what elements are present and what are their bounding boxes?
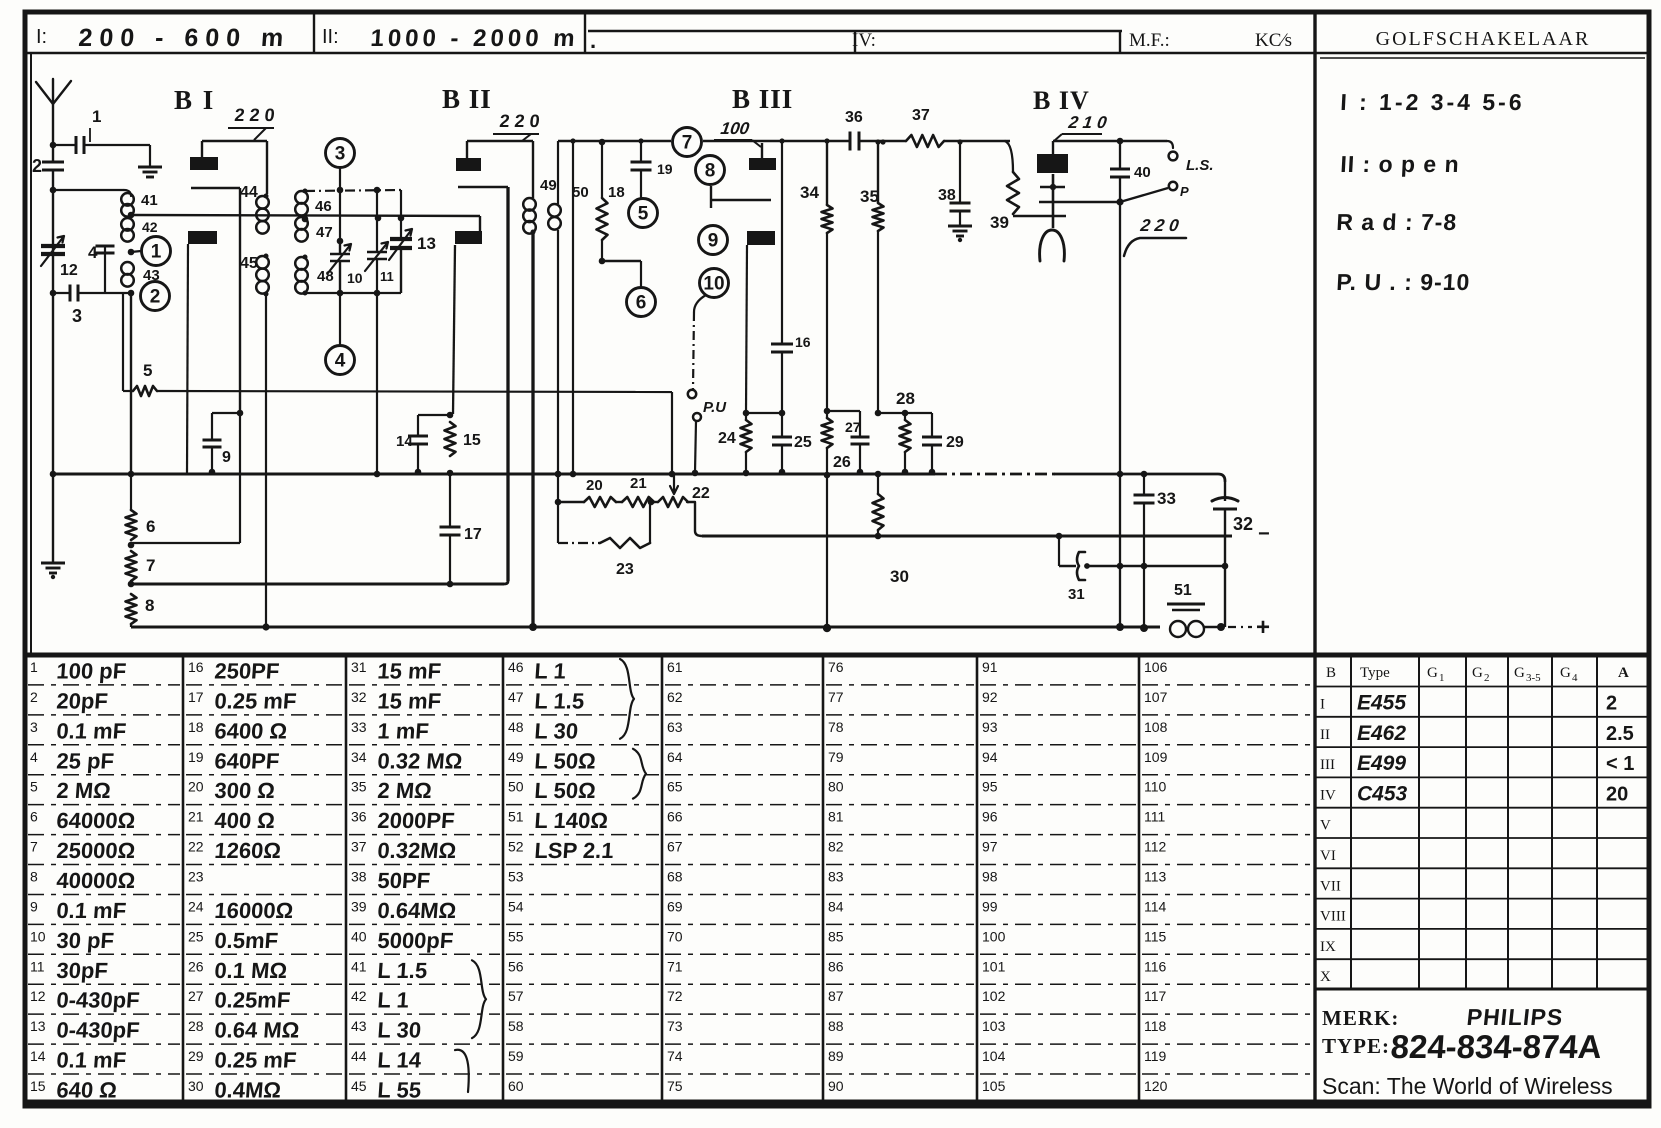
svg-text:M.F.:: M.F.: <box>1129 30 1170 51</box>
svg-text:2 1 0: 2 1 0 <box>1066 113 1108 132</box>
node bus/R6 <box>128 471 135 478</box>
svg-text:57: 57 <box>508 988 524 1004</box>
svg-text:8: 8 <box>145 596 154 615</box>
BIV cathode fork <box>1040 230 1065 261</box>
svg-text:A: A <box>1618 665 1629 681</box>
svg-text:P.U: P.U <box>703 399 727 416</box>
svg-text:20pF: 20pF <box>56 688 109 713</box>
wire 573 down <box>572 141 574 474</box>
svg-text:2000PF: 2000PF <box>377 808 456 833</box>
svg-text:18: 18 <box>608 184 625 201</box>
svg-text:50: 50 <box>508 779 524 795</box>
svg-text:34: 34 <box>351 749 367 765</box>
svg-text:20: 20 <box>1606 783 1628 805</box>
svg-text:15 mF: 15 mF <box>377 688 442 713</box>
svg-text:B II: B II <box>442 84 492 114</box>
resistor R20 <box>558 501 584 503</box>
svg-text:110: 110 <box>1144 779 1167 795</box>
svg-text:L 30: L 30 <box>377 1018 422 1043</box>
wire BII anode supply <box>466 141 468 158</box>
resistor R26 <box>824 408 831 415</box>
svg-text:250PF: 250PF <box>214 659 281 684</box>
svg-text:6: 6 <box>30 809 38 825</box>
svg-text:35: 35 <box>351 779 367 795</box>
svg-text:15 mF: 15 mF <box>377 659 442 684</box>
svg-text:47: 47 <box>508 689 524 705</box>
svg-text:II : o p e n: II : o p e n <box>1340 151 1461 177</box>
svg-text:IX: IX <box>1320 939 1336 955</box>
padder C13 <box>400 190 402 237</box>
svg-text:II:: II: <box>322 26 339 48</box>
BIV target plate <box>1039 201 1120 204</box>
svg-text:75: 75 <box>667 1078 683 1094</box>
svg-text:25 pF: 25 pF <box>56 748 115 773</box>
svg-text:97: 97 <box>982 839 998 855</box>
svg-text:Type: Type <box>1360 665 1390 681</box>
svg-text:36: 36 <box>351 809 367 825</box>
svg-text:I : 1-2 3-4 5-6: I : 1-2 3-4 5-6 <box>1340 89 1526 115</box>
svg-text:45: 45 <box>240 255 258 272</box>
svg-text:11: 11 <box>30 958 45 974</box>
svg-text:74: 74 <box>667 1048 683 1064</box>
svg-text:52: 52 <box>508 839 524 855</box>
svg-text:2 MΩ: 2 MΩ <box>56 778 112 803</box>
wire plus terminal <box>1204 626 1221 628</box>
svg-text:1000 - 2000 m: 1000 - 2000 m <box>370 25 580 52</box>
wire BIII grid down <box>746 245 747 413</box>
resistor R6 <box>130 474 132 510</box>
svg-text:51: 51 <box>508 809 524 825</box>
svg-text:64000Ω: 64000Ω <box>56 808 137 833</box>
svg-text:38: 38 <box>351 869 367 885</box>
svg-text:106: 106 <box>1144 659 1168 675</box>
svg-text:5: 5 <box>638 204 649 225</box>
svg-text:73: 73 <box>667 1018 683 1034</box>
coil L49 <box>523 198 536 211</box>
antenna <box>36 79 71 104</box>
BIV deflection electrode <box>1050 184 1056 190</box>
svg-text:67: 67 <box>667 839 683 855</box>
svg-text:39: 39 <box>990 213 1009 232</box>
svg-text:13: 13 <box>417 234 436 253</box>
pot arrow <box>670 474 678 494</box>
svg-text:23: 23 <box>188 869 204 885</box>
svg-text:115: 115 <box>1144 928 1167 944</box>
svg-text:84: 84 <box>828 898 844 914</box>
svg-text:47: 47 <box>316 224 333 241</box>
coil L50 <box>548 204 561 217</box>
svg-text:3-5: 3-5 <box>1526 672 1541 684</box>
svg-text:43: 43 <box>351 1018 367 1034</box>
svg-text:0.32 MΩ: 0.32 MΩ <box>377 748 464 773</box>
svg-text:IV:: IV: <box>852 30 876 51</box>
svg-text:P. U . : 9-10: P. U . : 9-10 <box>1336 269 1471 295</box>
wire grid bus BI-BII <box>131 215 480 216</box>
svg-text:16: 16 <box>188 659 204 675</box>
svg-text:109: 109 <box>1144 749 1168 765</box>
svg-text:100: 100 <box>719 119 751 138</box>
svg-text:37: 37 <box>912 107 930 124</box>
wire AVC line <box>157 391 672 392</box>
svg-text:65: 65 <box>667 779 683 795</box>
switch contact 6 <box>640 261 642 287</box>
coil L51 <box>1167 603 1205 606</box>
svg-text:1 mF: 1 mF <box>377 718 430 743</box>
svg-text:85: 85 <box>828 928 844 944</box>
svg-text:25: 25 <box>794 434 812 451</box>
svg-text:28: 28 <box>896 389 915 408</box>
svg-text:L 14: L 14 <box>377 1048 423 1073</box>
svg-text:29: 29 <box>946 434 964 451</box>
svg-text:KC⁄s: KC⁄s <box>1255 30 1292 51</box>
node R6/R7 <box>128 542 135 549</box>
capacitor C1 <box>53 144 76 146</box>
svg-text:114: 114 <box>1144 898 1167 914</box>
svg-text:26: 26 <box>188 958 204 974</box>
svg-text:2 2 0: 2 2 0 <box>499 111 541 131</box>
node R7/R8 <box>128 581 135 588</box>
svg-text:< 1: < 1 <box>1606 753 1634 775</box>
switch contact 5 <box>629 199 658 228</box>
svg-text:0.1 mF: 0.1 mF <box>56 898 127 923</box>
node 42/43 tap <box>128 249 135 256</box>
svg-text:0.64 MΩ: 0.64 MΩ <box>214 1018 301 1043</box>
svg-text:77: 77 <box>828 689 844 705</box>
svg-text:I: I <box>1320 697 1325 713</box>
svg-text:3: 3 <box>72 306 82 326</box>
svg-text:49: 49 <box>540 177 557 194</box>
terminal PU2 <box>693 413 701 421</box>
svg-text:10: 10 <box>30 928 46 944</box>
svg-text:0.25 mF: 0.25 mF <box>214 688 298 713</box>
svg-text:61: 61 <box>667 659 683 675</box>
svg-text:101: 101 <box>982 958 1006 974</box>
ground (C38) <box>948 225 972 228</box>
svg-text:400 Ω: 400 Ω <box>214 808 276 833</box>
svg-text:19: 19 <box>188 749 204 765</box>
wire BI grid down <box>187 244 188 474</box>
resistor R5 <box>133 386 157 396</box>
svg-text:2: 2 <box>30 689 38 705</box>
wire to PU <box>693 312 694 389</box>
wire antenna lower <box>52 170 54 474</box>
merk box <box>1315 988 1649 991</box>
svg-text:80: 80 <box>828 779 844 795</box>
svg-text:B III: B III <box>732 84 793 114</box>
capacitor C4 <box>104 246 106 293</box>
wire LS return <box>1120 188 1168 202</box>
svg-text:32: 32 <box>1233 514 1253 534</box>
svg-text:3: 3 <box>335 144 346 165</box>
capacitor C9 <box>212 412 240 414</box>
svg-text:G: G <box>1427 665 1438 681</box>
svg-text:0.25mF: 0.25mF <box>214 988 292 1013</box>
svg-text:36: 36 <box>845 109 863 126</box>
svg-text:34: 34 <box>800 183 819 202</box>
svg-text:2 2 0: 2 2 0 <box>1138 216 1180 235</box>
svg-text:L 1: L 1 <box>377 988 410 1013</box>
node grid/R15 <box>447 412 454 419</box>
switch contact 3 <box>326 139 355 168</box>
resistor R7 <box>126 551 137 581</box>
svg-text:L 30: L 30 <box>534 718 579 743</box>
svg-text:III: III <box>1320 757 1335 773</box>
wire BI cathode <box>191 187 240 189</box>
tube BI anode <box>190 157 218 170</box>
wire L50 to bus <box>557 230 559 474</box>
svg-text:19: 19 <box>657 161 673 177</box>
resistor R24 <box>743 410 750 417</box>
svg-text:P: P <box>1180 184 1189 199</box>
wire BII grid down <box>453 245 455 414</box>
svg-text:E499: E499 <box>1357 752 1406 775</box>
svg-text:49: 49 <box>508 749 524 765</box>
svg-text:79: 79 <box>828 749 844 765</box>
svg-text:50PF: 50PF <box>377 868 431 893</box>
svg-text:31: 31 <box>351 659 367 675</box>
svg-text:22: 22 <box>692 485 710 502</box>
svg-text:V: V <box>1320 818 1331 834</box>
svg-text:200 - 600 m: 200 - 600 m <box>78 24 292 52</box>
capacitor C29 <box>905 412 932 414</box>
svg-text:L 55: L 55 <box>377 1078 422 1103</box>
svg-text:90: 90 <box>828 1078 844 1094</box>
wire BI anode supply <box>201 141 203 157</box>
svg-text:116: 116 <box>1144 958 1167 974</box>
svg-text:22: 22 <box>188 839 204 855</box>
wire cathode to R6/R7 <box>239 413 241 543</box>
svg-text:37: 37 <box>351 839 367 855</box>
svg-text:68: 68 <box>667 869 683 885</box>
node R18/6 <box>599 258 606 265</box>
svg-text:72: 72 <box>667 988 683 1004</box>
svg-text:105: 105 <box>982 1078 1006 1094</box>
svg-text:0.1 MΩ: 0.1 MΩ <box>214 958 288 983</box>
svg-text:2: 2 <box>150 287 161 308</box>
golfschakelaar switch table <box>1320 57 1645 59</box>
node tap 41/42 <box>128 212 135 219</box>
svg-text:86: 86 <box>828 958 844 974</box>
svg-text:GOLFSCHAKELAAR: GOLFSCHAKELAAR <box>1376 28 1591 50</box>
svg-text:VII: VII <box>1320 878 1341 894</box>
svg-text:7: 7 <box>682 133 693 154</box>
svg-text:96: 96 <box>982 809 998 825</box>
svg-text:63: 63 <box>667 719 683 735</box>
node antenna busA <box>50 471 57 478</box>
svg-text:0.1 mF: 0.1 mF <box>56 1048 127 1073</box>
svg-text:0.1 mF: 0.1 mF <box>56 718 127 743</box>
capacitor C19 <box>638 138 643 143</box>
node L43 bottom <box>128 290 135 297</box>
svg-text:24: 24 <box>188 898 204 914</box>
resistor R34 <box>826 141 828 205</box>
svg-text:23: 23 <box>616 561 634 578</box>
svg-text:0.64MΩ: 0.64MΩ <box>377 898 457 923</box>
svg-text:82: 82 <box>828 839 844 855</box>
svg-text:27: 27 <box>188 988 204 1004</box>
tube BII anode <box>456 158 481 171</box>
svg-text:Scan: The World of Wireless: Scan: The World of Wireless <box>1322 1073 1613 1099</box>
svg-text:.: . <box>590 28 596 53</box>
svg-text:21: 21 <box>630 475 647 492</box>
svg-text:R a d : 7-8: R a d : 7-8 <box>1336 209 1458 235</box>
svg-text:60: 60 <box>508 1078 524 1094</box>
svg-text:78: 78 <box>828 719 844 735</box>
svg-text:30: 30 <box>188 1078 204 1094</box>
capacitor C25 <box>779 410 786 417</box>
switch contact 4 <box>339 293 341 345</box>
node R35/R28 <box>875 410 882 417</box>
svg-text:L 1: L 1 <box>534 659 567 684</box>
svg-text:87: 87 <box>828 988 844 1004</box>
capacitor C2 <box>42 161 64 164</box>
ground (antenna) <box>52 474 54 563</box>
svg-text:L.S.: L.S. <box>1186 157 1214 174</box>
svg-text:B: B <box>1326 665 1336 681</box>
wire C36-R37 <box>859 140 906 142</box>
resistor R39 <box>1005 141 1013 172</box>
svg-text:69: 69 <box>667 898 683 914</box>
svg-text:12: 12 <box>30 988 46 1004</box>
coil L46 <box>295 191 308 204</box>
wire R8 to +bus <box>130 624 132 627</box>
svg-text:L 140Ω: L 140Ω <box>534 808 609 833</box>
svg-text:5000pF: 5000pF <box>377 928 455 953</box>
resistor R18 <box>599 139 606 146</box>
svg-text:4: 4 <box>1572 672 1578 684</box>
switch contact 9 <box>699 226 728 255</box>
svg-text:1: 1 <box>151 242 162 263</box>
svg-text:15: 15 <box>463 432 481 449</box>
svg-text:1260Ω: 1260Ω <box>214 838 282 863</box>
trimmer C11 <box>376 190 378 251</box>
tube BII grid <box>455 231 482 244</box>
capacitor C17 <box>449 473 451 527</box>
svg-text:640PF: 640PF <box>214 748 281 773</box>
svg-text:7: 7 <box>146 556 155 575</box>
svg-text:−: − <box>1258 523 1270 545</box>
variable capacitor C12 <box>41 244 65 248</box>
svg-text:L 1.5: L 1.5 <box>377 958 428 983</box>
svg-text:33: 33 <box>351 719 367 735</box>
svg-text:1: 1 <box>1439 672 1445 684</box>
svg-text:15: 15 <box>30 1078 46 1094</box>
svg-text:29: 29 <box>188 1048 204 1064</box>
svg-text:E455: E455 <box>1357 692 1406 715</box>
svg-text:2.5: 2.5 <box>1606 723 1634 745</box>
svg-text:45: 45 <box>351 1078 367 1094</box>
wire plus bus <box>131 626 1160 629</box>
svg-text:111: 111 <box>1144 809 1165 825</box>
svg-text:95: 95 <box>982 779 998 795</box>
node C10 bottom <box>337 290 344 297</box>
svg-text:91: 91 <box>982 659 998 675</box>
svg-text:92: 92 <box>982 689 998 705</box>
svg-text:88: 88 <box>828 1018 844 1034</box>
svg-text:0.25 mF: 0.25 mF <box>214 1048 298 1073</box>
svg-text:93: 93 <box>982 719 998 735</box>
tube BI grid <box>188 231 217 244</box>
terminal LS1 <box>1167 141 1173 148</box>
svg-text:8: 8 <box>705 161 716 182</box>
svg-text:113: 113 <box>1144 869 1167 885</box>
capacitor C27 <box>827 410 860 412</box>
switch contact 1 <box>131 251 141 252</box>
wire L48 bottom <box>305 292 340 294</box>
svg-text:10: 10 <box>347 270 363 286</box>
svg-text:94: 94 <box>982 749 998 765</box>
capacitor C14 <box>418 414 450 416</box>
svg-text:6400 Ω: 6400 Ω <box>214 718 288 743</box>
svg-text:118: 118 <box>1144 1018 1167 1034</box>
coil L44 <box>256 196 269 209</box>
svg-text:70: 70 <box>667 928 683 944</box>
svg-text:11: 11 <box>380 269 394 284</box>
svg-text:41: 41 <box>141 192 158 209</box>
wire riser 20 <box>555 471 562 478</box>
svg-text:2: 2 <box>1606 693 1617 715</box>
svg-text:E462: E462 <box>1357 722 1406 745</box>
wire pot to bus2 <box>687 502 702 536</box>
svg-text:640 Ω: 640 Ω <box>56 1078 118 1103</box>
svg-text:117: 117 <box>1144 988 1167 1004</box>
svg-text:39: 39 <box>351 898 367 914</box>
svg-text:L 50Ω: L 50Ω <box>534 778 597 803</box>
svg-text:38: 38 <box>938 187 956 204</box>
svg-text:G: G <box>1560 665 1571 681</box>
svg-text:17: 17 <box>464 526 482 543</box>
tube data table <box>1350 655 1352 989</box>
coil L47 <box>295 217 308 230</box>
wire circle2 to R5 <box>122 293 124 391</box>
svg-text:IV: IV <box>1320 787 1336 803</box>
wire BIII anode <box>761 143 763 158</box>
svg-text:6: 6 <box>636 293 647 314</box>
capacitor C33 <box>1141 471 1148 478</box>
svg-text:108: 108 <box>1144 719 1168 735</box>
svg-text:83: 83 <box>828 869 844 885</box>
terminal PU1 <box>688 390 696 398</box>
svg-text:40: 40 <box>1134 164 1151 181</box>
svg-text:LSP 2.1: LSP 2.1 <box>534 838 615 863</box>
capacitor C16 <box>779 138 784 143</box>
svg-text:42: 42 <box>142 219 158 235</box>
wire L43 to bus <box>130 293 132 474</box>
node L46/L47 to gridbus <box>302 216 309 223</box>
svg-text:46: 46 <box>508 659 524 675</box>
wire L45 down to +bus <box>265 294 267 627</box>
svg-text:16: 16 <box>795 334 811 350</box>
svg-text:100 pF: 100 pF <box>56 659 127 684</box>
svg-text:40: 40 <box>351 928 367 944</box>
svg-text:4: 4 <box>30 749 38 765</box>
svg-text:64: 64 <box>667 749 683 765</box>
capacitor C40 <box>1119 141 1121 169</box>
svg-text:VI: VI <box>1320 848 1336 864</box>
svg-text:27: 27 <box>845 419 861 435</box>
wire bus A <box>53 472 935 475</box>
component value table <box>182 655 185 1102</box>
svg-text:89: 89 <box>828 1048 844 1064</box>
svg-text:41: 41 <box>351 958 367 974</box>
svg-text:16000Ω: 16000Ω <box>214 898 295 923</box>
capacitor C36 <box>849 132 852 151</box>
svg-text:59: 59 <box>508 1048 524 1064</box>
svg-text:99: 99 <box>982 898 998 914</box>
ground (C1) <box>138 166 162 169</box>
svg-text:B IV: B IV <box>1033 86 1090 115</box>
svg-text:17: 17 <box>188 689 204 705</box>
